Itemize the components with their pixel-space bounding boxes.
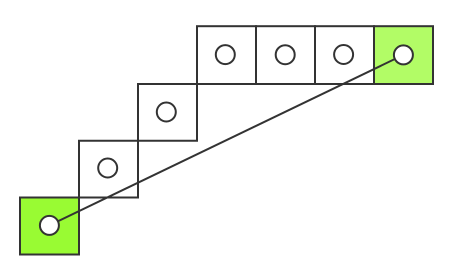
node circle in S3 xyxy=(157,103,176,122)
square S5 (white top-row cell) xyxy=(256,26,315,84)
node circle in S5 xyxy=(276,45,295,64)
node circle in S7 xyxy=(394,45,413,64)
node circle in S1 xyxy=(40,216,59,235)
square S7 (green, top-right end cell) xyxy=(374,26,433,84)
wire: diagonal connector line from S1 circle to S7 circle xyxy=(49,55,403,226)
square S1 (green, bottom-left start cell) xyxy=(20,198,79,255)
square S2 (white step cell) xyxy=(79,141,138,198)
node circle in S4 xyxy=(216,45,235,64)
square S4 (white top-row cell) xyxy=(197,26,256,84)
node circle in S2 xyxy=(98,159,117,178)
square S3 (white step cell) xyxy=(138,84,197,141)
node circle in S6 xyxy=(334,45,353,64)
square S6 (white top-row cell) xyxy=(315,26,374,84)
